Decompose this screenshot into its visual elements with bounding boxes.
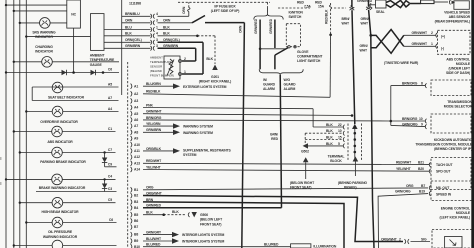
terminal block dashed housing bbox=[348, 124, 362, 161]
TCM box TACH/SPD bbox=[429, 158, 471, 190]
svg-text:A7: A7 bbox=[134, 124, 138, 128]
svg-text:YEL/WHT: YEL/WHT bbox=[146, 165, 162, 169]
svg-text:22: 22 bbox=[338, 123, 342, 127]
svg-text:GRN/RED: GRN/RED bbox=[357, 0, 373, 3]
transmission mode selector box 1 bbox=[431, 80, 471, 96]
pin A2 wire RED/BLK to ignition switch bbox=[131, 35, 331, 98]
mode selector splice vertical bbox=[390, 86, 393, 126]
oil pressure row wire bbox=[25, 221, 116, 223]
svg-text:ABS CONTROL: ABS CONTROL bbox=[446, 58, 470, 62]
svg-text:SWITCH: SWITCH bbox=[289, 15, 302, 19]
cluster connector dashed strip bbox=[127, 62, 129, 248]
pin B1 wire ORG to ECM MIL bbox=[131, 184, 428, 193]
svg-text:RED/BLK: RED/BLK bbox=[146, 90, 161, 94]
svg-text:W/: W/ bbox=[263, 78, 267, 82]
svg-text:C3: C3 bbox=[108, 187, 112, 191]
svg-text:C9: C9 bbox=[108, 162, 112, 166]
glove compartment light switch bbox=[260, 24, 300, 55]
pin A14 wire YEL/WHT to TCM bbox=[131, 165, 429, 172]
pin B5 wire BLK to ground G506 bbox=[131, 210, 223, 226]
svg-text:A1: A1 bbox=[134, 84, 138, 88]
svg-text:IGNITION: IGNITION bbox=[289, 11, 304, 15]
svg-text:SIG: SIG bbox=[421, 237, 427, 241]
pin B6 bbox=[131, 218, 139, 223]
transmission mode selector box 2 bbox=[431, 114, 471, 133]
NC box bbox=[67, 0, 81, 28]
terminal block row BLK 5 with G502 arrow bbox=[301, 142, 345, 154]
svg-text:C6: C6 bbox=[109, 218, 113, 222]
svg-text:(+): (+) bbox=[441, 35, 445, 39]
svg-text:BLK: BLK bbox=[163, 32, 170, 36]
svg-text:G502: G502 bbox=[301, 150, 309, 154]
seal box bbox=[376, 0, 387, 14]
svg-text:3: 3 bbox=[156, 19, 158, 23]
svg-text:A7: A7 bbox=[108, 96, 112, 100]
GRN/WHT trunk from top through splice bbox=[360, 0, 375, 248]
lamp parking brake indicator bbox=[52, 147, 63, 158]
top right sensor feed wire bbox=[357, 0, 376, 5]
wires gauge to cluster bbox=[104, 30, 122, 49]
svg-text:B7: B7 bbox=[134, 225, 138, 229]
svg-text:BLK: BLK bbox=[326, 123, 333, 127]
svg-text:YEL/GRN: YEL/GRN bbox=[146, 122, 161, 126]
svg-text:GUARD: GUARD bbox=[263, 83, 276, 87]
svg-text:ILLUMINATION: ILLUMINATION bbox=[313, 245, 336, 248]
svg-text:SEAT BELT INDICATOR: SEAT BELT INDICATOR bbox=[48, 95, 85, 99]
pin A12 bbox=[131, 155, 141, 160]
svg-text:BRN/ORG: BRN/ORG bbox=[402, 117, 418, 121]
svg-text:A13: A13 bbox=[134, 161, 140, 165]
svg-text:LIGHT SWITCH: LIGHT SWITCH bbox=[297, 59, 321, 63]
wire row BRN/BLU to fuse bbox=[122, 2, 190, 18]
svg-text:ORN/(CEL): ORN/(CEL) bbox=[125, 38, 142, 42]
svg-text:INTERIOR LIGHTS SYSTEM: INTERIOR LIGHTS SYSTEM bbox=[182, 233, 225, 237]
svg-text:ORN: ORN bbox=[163, 19, 171, 23]
svg-text:BLK: BLK bbox=[326, 142, 333, 146]
pin B8 wire GRN/GRY to interior lights bbox=[131, 231, 225, 238]
svg-text:15A: 15A bbox=[318, 5, 325, 9]
svg-text:W/O: W/O bbox=[284, 78, 291, 82]
scan edge artifact right bar bbox=[471, 0, 474, 248]
twisted wire pair to ABS module bbox=[371, 30, 404, 54]
lamp charging indicator bbox=[42, 57, 53, 68]
pin A7 wire YEL/GRN to warning system bbox=[131, 122, 214, 129]
svg-text:B19: B19 bbox=[419, 190, 425, 194]
svg-text:GRN/ORG: GRN/ORG bbox=[395, 190, 411, 194]
seat belt loop wire bbox=[32, 87, 118, 101]
diode row with diode D1 bbox=[5, 70, 119, 75]
svg-text:(BELOW RIGHT: (BELOW RIGHT bbox=[290, 181, 315, 185]
svg-text:BLK: BLK bbox=[326, 135, 333, 139]
pin A10 bbox=[131, 142, 141, 147]
svg-text:GRN/RED: GRN/RED bbox=[269, 18, 273, 34]
svg-text:A11: A11 bbox=[134, 149, 140, 153]
fuse F3 bbox=[370, 3, 372, 9]
svg-text:BLK: BLK bbox=[326, 129, 333, 133]
wire row ORN/CEL to ambient sensor pin1 bbox=[122, 38, 203, 74]
wire GRN/WHT to ABS (+) bbox=[404, 31, 437, 38]
svg-text:A12: A12 bbox=[134, 155, 140, 159]
svg-text:RED/WHT: RED/WHT bbox=[396, 161, 412, 165]
svg-text:BLU/GRN: BLU/GRN bbox=[146, 82, 161, 86]
ambient temperature sensor box with thermistor bbox=[164, 56, 186, 79]
brake warning row wire bbox=[5, 178, 116, 180]
svg-text:B6: B6 bbox=[134, 219, 138, 223]
guard alarm branch wire GRN/RED right bbox=[269, 18, 275, 69]
svg-text:C7: C7 bbox=[108, 148, 112, 152]
svg-text:4: 4 bbox=[156, 12, 158, 16]
svg-text:FRONT BUMPER): FRONT BUMPER) bbox=[150, 74, 174, 78]
wire BRN/ORG to mode selector pin 8 bbox=[391, 82, 427, 88]
wire row GRN/BRN to ambient sensor pin2 bbox=[122, 44, 196, 61]
svg-text:MODE SELECTOR: MODE SELECTOR bbox=[444, 105, 473, 109]
terminal block row BLK 10 dashed bbox=[305, 129, 344, 135]
svg-text:1: 1 bbox=[156, 25, 158, 29]
wire row BLU bbox=[122, 25, 190, 31]
GRN/WHT label box bbox=[421, 0, 448, 4]
svg-text:B3: B3 bbox=[134, 200, 138, 204]
svg-text:G506: G506 bbox=[200, 213, 208, 217]
svg-text:BLK: BLK bbox=[172, 210, 179, 214]
svg-text:C5: C5 bbox=[108, 198, 112, 202]
BRN/WHT trunk from top to terminal block bbox=[342, 0, 355, 124]
svg-text:WARNING SYSTEM: WARNING SYSTEM bbox=[183, 131, 213, 135]
wire bus to gauge bbox=[25, 35, 90, 37]
ECM box bbox=[429, 181, 474, 201]
svg-text:ORN: ORN bbox=[238, 25, 242, 33]
svg-text:BRAKE): BRAKE) bbox=[344, 185, 357, 189]
svg-text:MIL OUT: MIL OUT bbox=[436, 186, 450, 190]
svg-text:B2: B2 bbox=[134, 194, 138, 198]
svg-text:1: 1 bbox=[184, 70, 186, 74]
svg-text:WARNING INDICATOR: WARNING INDICATOR bbox=[43, 235, 78, 239]
svg-text:B7: B7 bbox=[421, 184, 425, 188]
terminal block internal bus bbox=[352, 124, 358, 159]
fuse F2 bbox=[351, 3, 353, 9]
svg-text:A5: A5 bbox=[134, 112, 138, 116]
svg-text:BLOCK: BLOCK bbox=[330, 159, 342, 163]
wire ORG/WHT into data link connector bbox=[381, 237, 430, 244]
svg-text:B20: B20 bbox=[418, 167, 424, 171]
svg-text:A8: A8 bbox=[134, 130, 138, 134]
svg-text:A6: A6 bbox=[134, 118, 138, 122]
svg-text:GRN/: GRN/ bbox=[270, 133, 278, 137]
svg-text:BLU/RED: BLU/RED bbox=[264, 243, 279, 247]
svg-text:A2: A2 bbox=[134, 92, 138, 96]
low fuel row wire bbox=[13, 244, 117, 246]
svg-text:A9: A9 bbox=[134, 137, 138, 141]
fuse F1 bbox=[329, 3, 331, 9]
pin B3 wire BRN down into panel bbox=[131, 198, 344, 248]
sensor connector bbox=[449, 0, 455, 4]
svg-text:GRN/: GRN/ bbox=[361, 17, 369, 21]
svg-text:(-): (-) bbox=[441, 47, 444, 51]
wire BRN/ORG to mode selector pin 10 bbox=[391, 117, 427, 123]
svg-text:4: 4 bbox=[156, 32, 158, 36]
svg-text:ALARM: ALARM bbox=[284, 87, 296, 91]
svg-text:B21: B21 bbox=[418, 161, 424, 165]
svg-text:G201: G201 bbox=[211, 75, 219, 79]
svg-text:10: 10 bbox=[338, 129, 342, 133]
pin A5 wire GRN/WHT bbox=[131, 110, 354, 117]
svg-text:SUPPLEMENTAL RESTRAINTS: SUPPLEMENTAL RESTRAINTS bbox=[183, 149, 232, 153]
pin A11 wire ORG/BLK to SRS bbox=[131, 147, 232, 157]
svg-text:BLK: BLK bbox=[125, 32, 132, 36]
svg-text:HIGH BEAM INDICATOR: HIGH BEAM INDICATOR bbox=[42, 210, 80, 214]
pin A3 bbox=[131, 98, 139, 103]
svg-text:BRAKE WARNING INDICATOR: BRAKE WARNING INDICATOR bbox=[39, 186, 86, 190]
svg-text:OIL PRESSURE: OIL PRESSURE bbox=[48, 230, 73, 234]
svg-text:B9: B9 bbox=[134, 239, 138, 243]
svg-text:(TWISTED WIRE PAIR): (TWISTED WIRE PAIR) bbox=[384, 61, 418, 65]
I/P fuse box dashed edge bbox=[178, 2, 270, 13]
small twisted pair top bbox=[386, 0, 421, 7]
svg-text:C6: C6 bbox=[108, 68, 112, 72]
wire charging row bbox=[13, 61, 119, 63]
svg-text:BLU: BLU bbox=[125, 25, 132, 29]
svg-text:SEAL: SEAL bbox=[376, 10, 385, 14]
svg-text:INTERIOR LIGHTS SYSTEM: INTERIOR LIGHTS SYSTEM bbox=[182, 240, 225, 244]
svg-text:ORN: ORN bbox=[125, 19, 133, 23]
pin A6 wire BRN/ORG to mode selector bbox=[131, 116, 391, 123]
svg-text:TACH OUT: TACH OUT bbox=[436, 163, 453, 167]
svg-text:ORG: ORG bbox=[406, 184, 414, 188]
svg-text:A3: A3 bbox=[134, 99, 138, 103]
instrument cluster left edge bbox=[121, 0, 123, 95]
guard alarm trunk GRN/RED down to B4 bbox=[270, 75, 282, 208]
svg-text:B8: B8 bbox=[134, 233, 138, 237]
svg-text:BLU/WHT: BLU/WHT bbox=[146, 237, 162, 241]
wire to NC box row2 bbox=[13, 10, 67, 12]
terminal block row BLK 15 dashed bbox=[305, 133, 344, 146]
ABS control module box bbox=[438, 30, 471, 54]
fuse box dashed segments right bbox=[278, 7, 310, 9]
svg-text:A10: A10 bbox=[134, 143, 140, 147]
svg-text:COMPARTMENT: COMPARTMENT bbox=[297, 55, 323, 59]
svg-text:ALARM: ALARM bbox=[263, 87, 275, 91]
svg-text:WHT: WHT bbox=[342, 22, 350, 26]
svg-text:TRANSMISSION: TRANSMISSION bbox=[447, 100, 472, 104]
svg-text:INDICATOR: INDICATOR bbox=[35, 49, 53, 53]
svg-text:A4: A4 bbox=[108, 107, 112, 111]
svg-text:(RIGHT KICK PANEL): (RIGHT KICK PANEL) bbox=[199, 80, 231, 84]
diode D3 brake warning bbox=[36, 178, 117, 191]
svg-text:BLK: BLK bbox=[206, 57, 213, 61]
svg-text:BLU/RED: BLU/RED bbox=[146, 243, 161, 247]
svg-text:ABS INDICATOR: ABS INDICATOR bbox=[47, 140, 73, 144]
ABS row wire bbox=[13, 130, 116, 132]
high beam row wire bbox=[19, 202, 116, 204]
svg-text:GRN/GRY: GRN/GRY bbox=[146, 231, 162, 235]
svg-text:SENSOR: SENSOR bbox=[150, 65, 162, 69]
svg-text:SPEED IN: SPEED IN bbox=[436, 192, 452, 196]
svg-text:ORG/WHT: ORG/WHT bbox=[381, 237, 398, 241]
svg-text:15: 15 bbox=[338, 135, 342, 139]
svg-text:TEMPERATURE: TEMPERATURE bbox=[90, 58, 115, 62]
svg-text:SPD OUT: SPD OUT bbox=[436, 169, 451, 173]
svg-text:1111898: 1111898 bbox=[129, 2, 141, 6]
svg-text:GRN/BRN: GRN/BRN bbox=[125, 44, 141, 48]
svg-text:RED/BLK: RED/BLK bbox=[325, 9, 329, 24]
ignition switch RED/BLK dashed wire bbox=[325, 9, 332, 36]
svg-text:2: 2 bbox=[184, 57, 186, 61]
svg-text:WHT: WHT bbox=[360, 49, 368, 53]
svg-text:ORG: ORG bbox=[146, 186, 154, 190]
pin A1 wire BLU/GRN to exterior lights bbox=[131, 82, 227, 89]
svg-text:TEMPERATURE: TEMPERATURE bbox=[150, 60, 172, 64]
svg-text:WARNING SYSTEM: WARNING SYSTEM bbox=[183, 125, 213, 129]
svg-text:9: 9 bbox=[421, 123, 423, 127]
svg-text:MODULE: MODULE bbox=[456, 211, 471, 215]
ORN trunk down bbox=[238, 23, 244, 248]
svg-text:(LEFT KICK PANEL): (LEFT KICK PANEL) bbox=[440, 216, 470, 220]
left bus wires bbox=[6, 0, 26, 248]
svg-text:GRN/WHT: GRN/WHT bbox=[412, 42, 429, 46]
pin B9 wire BLU/WHT to interior lights bbox=[131, 237, 225, 244]
svg-text:(BELOW LEFT: (BELOW LEFT bbox=[200, 218, 223, 222]
svg-text:I/P FUSE BOX: I/P FUSE BOX bbox=[214, 4, 236, 8]
svg-text:OVERDRIVE INDICATOR: OVERDRIVE INDICATOR bbox=[40, 120, 78, 124]
svg-text:BRN/ORG: BRN/ORG bbox=[146, 116, 162, 120]
wire row BLK to ground G201 bbox=[122, 32, 232, 84]
svg-text:BRN/: BRN/ bbox=[342, 17, 350, 21]
svg-text:GLOVE: GLOVE bbox=[297, 50, 309, 54]
svg-text:SYSTEM: SYSTEM bbox=[183, 153, 197, 157]
wire GRN/WHT to ABS (-) bbox=[404, 42, 437, 49]
svg-text:B4: B4 bbox=[134, 206, 138, 210]
svg-text:(BEHIND CENTER OF IP): (BEHIND CENTER OF IP) bbox=[434, 147, 472, 151]
lamp overdrive indicator bbox=[52, 106, 63, 117]
lamp SRS warning indicator bbox=[40, 18, 51, 29]
svg-text:GRN/WHT: GRN/WHT bbox=[146, 110, 163, 114]
svg-text:PNK: PNK bbox=[146, 103, 154, 107]
wire to NC box row1 bbox=[5, 4, 67, 6]
svg-text:B1: B1 bbox=[134, 188, 138, 192]
overdrive row wire bbox=[25, 110, 118, 112]
wire row ORN with ignition switch contact bbox=[122, 16, 245, 26]
svg-text:GRN/: GRN/ bbox=[360, 44, 368, 48]
pin B4 wire GRN/RED from guard alarm bbox=[131, 204, 282, 211]
svg-text:BRN/ORG: BRN/ORG bbox=[402, 82, 418, 86]
svg-text:C1: C1 bbox=[108, 127, 112, 131]
svg-text:AMBIENT: AMBIENT bbox=[150, 56, 163, 60]
svg-text:EXTERIOR LIGHTS SYSTEM: EXTERIOR LIGHTS SYSTEM bbox=[183, 85, 227, 89]
svg-text:VEHICLE SPEED: VEHICLE SPEED bbox=[444, 11, 470, 15]
svg-text:A5: A5 bbox=[108, 82, 112, 86]
svg-text:A14: A14 bbox=[134, 168, 140, 172]
guard alarm merge brace bbox=[259, 69, 303, 75]
lamp brake warning indicator bbox=[52, 174, 63, 185]
svg-text:2: 2 bbox=[431, 31, 433, 35]
wire GRN/ORG speed signal bbox=[378, 190, 428, 248]
svg-text:5: 5 bbox=[338, 142, 340, 146]
pin A8 wire GRN/BRN to warning system bbox=[131, 128, 214, 135]
lamp ABS indicator bbox=[52, 126, 63, 137]
svg-text:ABS SENSOR: ABS SENSOR bbox=[449, 15, 471, 19]
svg-text:C4: C4 bbox=[108, 175, 112, 179]
svg-text:GRN/RED: GRN/RED bbox=[254, 18, 258, 34]
svg-text:10: 10 bbox=[419, 117, 423, 121]
lamp oil pressure warning indicator bbox=[52, 217, 63, 228]
svg-text:(BEHIND: (BEHIND bbox=[150, 69, 162, 73]
svg-text:GAUGE: GAUGE bbox=[90, 63, 103, 67]
svg-text:NC: NC bbox=[71, 13, 76, 17]
svg-text:BLK: BLK bbox=[146, 211, 153, 215]
pin B10 wire BLU/RED to illumination bbox=[131, 243, 337, 248]
svg-text:TERMINAL: TERMINAL bbox=[328, 155, 345, 159]
svg-text:FRONT SEAT): FRONT SEAT) bbox=[290, 185, 311, 189]
ground behind parking brake bbox=[338, 156, 367, 189]
svg-text:2: 2 bbox=[399, 237, 401, 241]
wire NC box to diode row bbox=[73, 28, 75, 72]
svg-text:RED: RED bbox=[271, 137, 279, 141]
ground G50x below right front seat bbox=[290, 157, 315, 189]
wire GRN/ORG to mode selector pin 9 bbox=[391, 123, 427, 129]
svg-text:WHT: WHT bbox=[361, 22, 369, 26]
terminal block row BLK 22 bbox=[313, 123, 344, 129]
svg-text:SIDE OF DASH): SIDE OF DASH) bbox=[446, 71, 470, 75]
pin A4 wire PNK to terminal block bbox=[131, 103, 314, 127]
svg-text:(BEHIND PARKING: (BEHIND PARKING bbox=[338, 181, 367, 185]
pin A13 wire RED/WHT to TCM bbox=[131, 159, 429, 166]
svg-text:TRANSMISSION CONTROL MODULE: TRANSMISSION CONTROL MODULE bbox=[415, 143, 472, 147]
svg-text:YEL/WHT: YEL/WHT bbox=[396, 167, 412, 171]
svg-text:ENGINE CONTROL: ENGINE CONTROL bbox=[441, 207, 470, 211]
pin B7 bbox=[131, 225, 139, 230]
svg-text:PARKING BRAKE INDICATOR: PARKING BRAKE INDICATOR bbox=[40, 160, 86, 164]
svg-text:GRN/ORG: GRN/ORG bbox=[402, 123, 418, 127]
svg-text:KICKDOWN AUTOMATIC: KICKDOWN AUTOMATIC bbox=[434, 138, 473, 142]
wire SRS row bbox=[19, 22, 67, 24]
svg-text:ORG/BLK: ORG/BLK bbox=[146, 147, 162, 151]
pin A9 bbox=[131, 136, 139, 141]
svg-text:MODULE: MODULE bbox=[456, 62, 471, 66]
scan edge specks left bbox=[0, 157, 2, 160]
cruise control actuator dashed box bbox=[432, 230, 474, 248]
lamp high beam indicator bbox=[52, 197, 63, 208]
svg-text:GUARD: GUARD bbox=[284, 83, 297, 87]
svg-text:GRN/WHT: GRN/WHT bbox=[412, 31, 429, 35]
svg-text:ORN: ORN bbox=[182, 6, 186, 14]
svg-text:GRN/BRN: GRN/BRN bbox=[146, 128, 162, 132]
svg-text:(UNDER LEFT: (UNDER LEFT bbox=[448, 67, 471, 71]
svg-text:BRN/BLU: BRN/BLU bbox=[125, 12, 140, 16]
svg-text:(LEFT SIDE OF I/P): (LEFT SIDE OF I/P) bbox=[211, 9, 240, 13]
svg-text:FRONT SEAT): FRONT SEAT) bbox=[200, 222, 221, 226]
pin B2 wire ORG/WHT to cruise SIG bbox=[131, 192, 403, 242]
svg-text:AMBIENT: AMBIENT bbox=[90, 54, 106, 58]
diode D2 parking brake bbox=[102, 151, 117, 167]
ambient temperature gauge box bbox=[91, 14, 105, 51]
lamp seat belt indicator bbox=[52, 82, 63, 93]
guard alarm branch wire GRN/RED left bbox=[254, 18, 261, 69]
svg-text:1: 1 bbox=[431, 42, 433, 46]
svg-text:BLK: BLK bbox=[163, 25, 170, 29]
guard alarm feed brace bbox=[254, 8, 283, 20]
svg-text:B5: B5 bbox=[134, 213, 138, 217]
vehicle speed sensor coil box bbox=[454, 1, 469, 10]
svg-text:(REAR DIFFERENTIAL): (REAR DIFFERENTIAL) bbox=[435, 20, 470, 24]
svg-text:RED/WHT: RED/WHT bbox=[146, 159, 162, 163]
parking brake row wire bbox=[19, 151, 116, 153]
svg-text:A4: A4 bbox=[134, 106, 138, 110]
svg-text:8: 8 bbox=[421, 82, 423, 86]
lamp low fuel indicator (cut off) bbox=[52, 240, 63, 248]
